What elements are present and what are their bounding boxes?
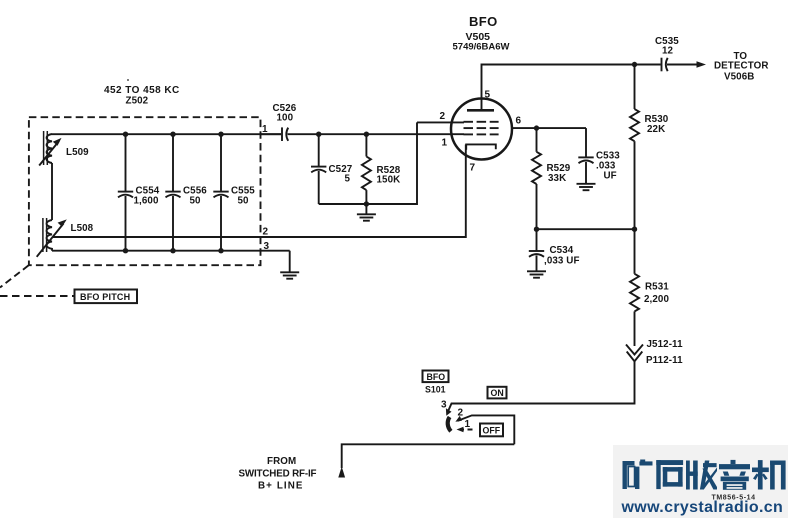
svg-text:L508: L508: [71, 223, 94, 234]
tube plate: [467, 109, 494, 112]
svg-text:S101: S101: [425, 384, 446, 394]
ground (C534): [527, 271, 546, 277]
svg-text:3: 3: [264, 241, 270, 252]
B+ entry arrow: [338, 467, 345, 478]
ground (grid return): [357, 204, 376, 221]
svg-text:2: 2: [458, 408, 464, 419]
svg-text:33K: 33K: [548, 173, 566, 184]
svg-text:P112-11: P112-11: [646, 355, 683, 366]
wire control grid pin 1: [288, 133, 465, 135]
output capacitor C535: [635, 36, 703, 71]
ground (C533): [577, 184, 596, 190]
node dots on tank bottom rail: [123, 248, 128, 253]
switch rotor: [448, 417, 451, 431]
svg-text:2: 2: [440, 111, 446, 122]
ON label box: [488, 387, 507, 399]
B+ feed wire: [342, 444, 515, 468]
node dots on tank top rail: [123, 132, 128, 137]
OFF label box: [480, 424, 503, 437]
node plate/B+ junction: [632, 62, 637, 67]
svg-text:5: 5: [345, 174, 351, 185]
tube cathode: [466, 144, 496, 149]
svg-text:V506B: V506B: [724, 72, 754, 83]
svg-text:SWITCHED RF-IF: SWITCHED RF-IF: [239, 469, 317, 480]
inductor L509 (adjustable): [39, 131, 89, 166]
watermark logo 音: [719, 460, 750, 490]
watermark logo 机: [752, 460, 786, 489]
svg-text:2: 2: [263, 227, 269, 238]
switch contact 2 wire to B+: [458, 415, 515, 444]
svg-text:DETECTOR: DETECTOR: [714, 61, 769, 72]
node pin6 / R529 junction: [534, 125, 539, 130]
switch contact 3 arrowhead: [446, 408, 452, 416]
svg-text:5749/6BA6W: 5749/6BA6W: [453, 42, 510, 53]
screen wire pin 6: [512, 127, 587, 129]
mechanical linkage dashed diagonal to BFO PITCH: [0, 265, 29, 287]
wire coil link L509 bottom to L508 top: [51, 163, 53, 220]
capacitor C555: [213, 134, 255, 251]
node R530 / R531 junction: [632, 227, 637, 232]
dropping resistor R531: [630, 229, 669, 346]
screen resistor R529: [532, 128, 571, 229]
svg-text:B+ LINE: B+ LINE: [258, 481, 304, 492]
svg-text:50: 50: [238, 196, 250, 207]
tube V505 envelope: [451, 99, 512, 160]
coupling capacitor C526: [261, 103, 297, 141]
svg-text:50: 50: [190, 196, 202, 207]
watermark background panel: [613, 445, 788, 518]
svg-text:3: 3: [441, 400, 447, 411]
wire grid3 (pin 2): [417, 121, 464, 123]
svg-text:12: 12: [662, 46, 674, 57]
svg-text:452 TO 458 KC: 452 TO 458 KC: [104, 85, 180, 96]
watermark logo 石: [656, 460, 683, 489]
plate load resistor R530: [630, 65, 669, 230]
svg-text:FROM: FROM: [267, 456, 296, 467]
svg-text:OFF: OFF: [483, 426, 501, 436]
svg-text:1,600: 1,600: [134, 196, 159, 207]
svg-text:J512-11: J512-11: [647, 339, 684, 350]
svg-text:5: 5: [485, 90, 491, 101]
tank top rail (node 1 side): [52, 133, 281, 135]
svg-text:L509: L509: [66, 147, 89, 158]
screen bypass capacitor C533: [578, 128, 620, 183]
grid-return ground rail: [319, 122, 417, 204]
capacitor C554: [118, 134, 160, 251]
tube grid rows: [464, 122, 499, 135]
BFO PITCH dashed link: [0, 295, 75, 297]
switch contact 1 dashed stub (OFF): [459, 429, 474, 431]
connector J512-11 / P112-11: [626, 339, 683, 366]
svg-text:7: 7: [470, 163, 476, 174]
BFO PITCH label box: [75, 290, 138, 304]
svg-text:C534: C534: [550, 245, 574, 256]
svg-text:150K: 150K: [377, 175, 401, 186]
svg-text:6: 6: [516, 116, 522, 127]
svg-text:UF: UF: [604, 171, 617, 182]
switch S101 label box BFO: [423, 371, 449, 395]
svg-text:ON: ON: [491, 388, 504, 398]
svg-text:R531: R531: [645, 282, 669, 293]
svg-text:Z502: Z502: [126, 96, 149, 107]
svg-text:100: 100: [277, 113, 294, 124]
terminal 2 tap wire from L508 to tube cathode: [53, 145, 466, 238]
svg-text:BFO: BFO: [427, 372, 446, 382]
wire L509 top to tank top rail: [51, 133, 53, 135]
plate lead wire up from pin 5: [482, 65, 635, 111]
watermark logo 矿: [623, 460, 653, 490]
svg-text:1: 1: [465, 419, 471, 430]
grid node dots: [316, 132, 321, 137]
decoupling capacitor C534: [529, 229, 580, 271]
node R529 / C534 junction: [534, 227, 539, 232]
grid resistor R528: [362, 134, 401, 204]
grid capacitor C527: [311, 134, 353, 204]
inductor L508 (adjustable, tapped): [37, 218, 94, 257]
svg-text:2,200: 2,200: [644, 294, 669, 305]
terminal 3 wire to ground: [289, 251, 291, 272]
ground (tank bottom): [280, 272, 299, 278]
svg-text:1: 1: [442, 138, 448, 149]
svg-text:BFO: BFO: [469, 14, 498, 29]
paper speck: [127, 79, 129, 81]
svg-text:22K: 22K: [647, 124, 665, 135]
svg-text:,033 UF: ,033 UF: [544, 256, 580, 267]
tank bottom rail (terminal 3): [52, 250, 290, 252]
svg-text:BFO PITCH: BFO PITCH: [80, 292, 130, 302]
switch contact 1 arrowhead: [457, 427, 464, 432]
capacitor C556: [165, 134, 207, 251]
wire connector to switch ON contact: [448, 361, 635, 412]
svg-text:www.crystalradio.cn: www.crystalradio.cn: [621, 499, 784, 516]
watermark logo 收: [686, 461, 717, 490]
Z502 oscillator coil assembly dashed enclosure: [29, 85, 261, 265]
switch contact 2 arrowhead: [455, 416, 462, 422]
arrow to detector: [697, 61, 707, 68]
screen/divider rail: [537, 228, 635, 230]
